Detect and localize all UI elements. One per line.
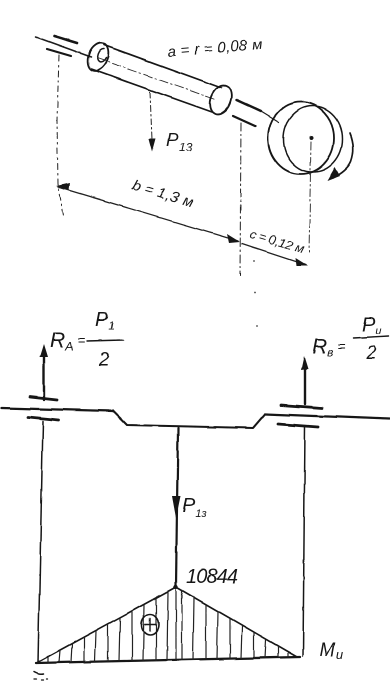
dimension c arrowhead bbox=[295, 258, 308, 266]
moment triangle left side bbox=[38, 587, 176, 662]
force arrow P13 dash line bbox=[150, 92, 152, 140]
reaction arrow RA bbox=[43, 352, 45, 400]
svg-text:c = 0,12 м: c = 0,12 м bbox=[248, 226, 306, 256]
cylinder right end cap bbox=[206, 82, 236, 117]
right vertical line to moment baseline bbox=[303, 427, 305, 656]
load arrowhead bbox=[172, 496, 181, 518]
rotation arc arrowhead bbox=[327, 167, 340, 181]
arrowhead RB bbox=[301, 356, 308, 370]
dimension line b bbox=[58, 187, 238, 241]
dimension b right arrowhead bbox=[227, 234, 240, 243]
extension line at bearing A (dash-dot) bbox=[57, 55, 64, 219]
left support bottom line bbox=[28, 417, 59, 420]
svg-text:P1з: P1з bbox=[182, 495, 207, 520]
bearing A upper stroke bbox=[54, 36, 77, 43]
beam step-down profile bbox=[113, 411, 265, 428]
shaft stub to pulley bbox=[261, 111, 279, 122]
right beam line bbox=[265, 414, 389, 419]
small scribble below left corner bbox=[34, 672, 43, 674]
cylinder left cap inner hook bbox=[97, 49, 106, 62]
bearing B lower stroke bbox=[233, 116, 255, 126]
plus in circle bbox=[142, 615, 159, 635]
cylinder axis (dash-dot) bbox=[97, 58, 217, 100]
shaft axis at bearing A bbox=[36, 37, 91, 57]
pulley front ellipse bbox=[284, 106, 343, 172]
left support top line bbox=[30, 397, 57, 400]
cylinder body bottom line bbox=[91, 69, 212, 112]
svg-text:b = 1,3 м: b = 1,3 м bbox=[130, 177, 196, 212]
stray dots bbox=[253, 260, 255, 262]
apex dot bbox=[174, 585, 178, 589]
rotation arc bbox=[333, 133, 353, 178]
extension line at bearing B (dashed) bbox=[240, 123, 241, 276]
bearing A lower stroke bbox=[47, 49, 71, 56]
svg-text:a = r = 0,08 м: a = r = 0,08 м bbox=[167, 36, 263, 61]
cylinder body top line bbox=[104, 45, 222, 88]
svg-text:10844: 10844 bbox=[186, 566, 238, 588]
svg-text:Pи: Pи bbox=[362, 314, 381, 337]
pulley center line (dash-dot) bbox=[309, 142, 311, 252]
svg-text:P1: P1 bbox=[95, 309, 114, 332]
moment baseline bbox=[36, 657, 300, 663]
left beam line bbox=[2, 408, 113, 411]
arrowhead RA bbox=[40, 344, 48, 357]
bearing B upper stroke bbox=[237, 100, 261, 111]
force arrow P13 head bbox=[149, 139, 156, 152]
pulley center dot bbox=[309, 136, 313, 140]
svg-text:RA =: RA = bbox=[50, 329, 85, 353]
right support top line bbox=[281, 405, 322, 408]
right support bottom line bbox=[278, 424, 318, 427]
pulley back ellipse bbox=[268, 102, 334, 174]
svg-text:2: 2 bbox=[365, 343, 377, 364]
svg-text:2: 2 bbox=[98, 350, 110, 371]
load arrow P down bbox=[176, 428, 178, 586]
dimension b left arrowhead bbox=[56, 183, 70, 190]
left vertical line to moment baseline bbox=[38, 421, 43, 662]
svg-text:Mи: Mи bbox=[319, 640, 343, 662]
reaction arrow RB bbox=[304, 364, 306, 404]
moment triangle right side bbox=[176, 587, 297, 657]
hatching of moment diagram bbox=[48, 590, 288, 663]
dimension line c bbox=[242, 244, 306, 265]
svg-text:P13: P13 bbox=[166, 130, 193, 154]
cylinder left end cap bbox=[84, 40, 112, 74]
svg-text:Rв =: Rв = bbox=[312, 335, 346, 359]
